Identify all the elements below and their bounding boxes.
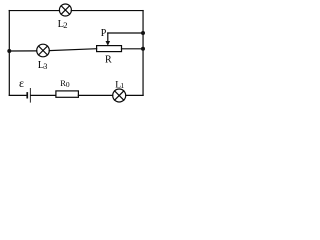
wire battery to R0 [31,94,56,96]
wire R0 to L1 [78,94,112,96]
wire L1 to bottom right corner [126,94,143,96]
node junction left (middle wire) [7,49,11,53]
wire left vertical [8,11,10,96]
wire top left segment [9,10,59,12]
node junction right rheostat wire [141,47,145,51]
wire rheostat to right rail [122,48,144,50]
wire top right segment [71,10,143,12]
slider arrowhead [106,41,111,46]
wire right vertical [142,11,144,96]
svg-text:2: 2 [63,20,67,30]
resistor R0 body [56,91,79,97]
wire bottom left segment [9,94,26,96]
svg-text:3: 3 [43,62,47,71]
slider P arm [107,33,109,42]
svg-text:P: P [101,28,107,39]
wire L3 to rheostat [49,49,96,51]
node junction right slider wire [141,31,145,35]
svg-text:0: 0 [66,80,70,89]
lamp L1 [113,89,126,102]
svg-text:R: R [105,55,112,66]
lamp L3 [37,44,50,57]
battery negative plate (short thick) [26,92,28,98]
wire middle left segment [9,50,37,52]
rheostat R body [97,46,122,52]
svg-text:ε: ε [19,76,24,90]
battery positive plate (long thin) [29,88,32,103]
lamp L2 [59,4,71,16]
svg-text:1: 1 [120,81,124,90]
wire slider to right rail [108,32,143,34]
